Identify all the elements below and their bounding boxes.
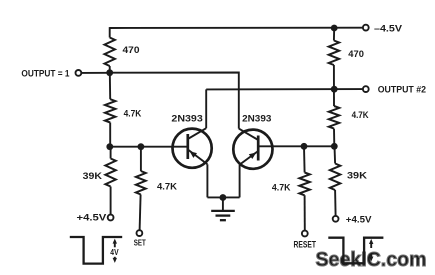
wire: top -4.5V supply rail bbox=[110, 27, 363, 29]
node: top-right rail junction bbox=[331, 25, 338, 32]
waveform: RESET input pulse bbox=[328, 238, 383, 264]
wire: cross-couple from OUTPUT=1 node to Q2 collector bbox=[110, 73, 239, 129]
wire: right base node to 39K bbox=[334, 146, 337, 163]
wire: left column top lead bbox=[109, 27, 111, 37]
wire: Q1 collector to OUTPUT #2 line bbox=[205, 89, 207, 128]
wire: OUTPUT #2 line bbox=[206, 88, 363, 90]
waveform: SET input pulse bbox=[70, 237, 122, 264]
wire: left base node to 39K bbox=[110, 147, 112, 159]
resistor R1 470 (left) bbox=[105, 38, 140, 67]
terminal: OUTPUT #2 bbox=[363, 84, 426, 95]
wire: RESET branch lower lead bbox=[304, 195, 306, 230]
resistor R7 4.7K (SET branch) bbox=[136, 171, 177, 195]
resistor R5 39K (left) bbox=[83, 159, 116, 187]
svg-text:4.7K: 4.7K bbox=[352, 110, 369, 121]
node: OUTPUT=1 junction bbox=[106, 69, 113, 76]
terminal: OUTPUT = 1 bbox=[21, 69, 81, 80]
wire: left column R1 to R3 bbox=[109, 66, 112, 99]
svg-text:4.7K: 4.7K bbox=[157, 182, 177, 193]
ground bbox=[211, 211, 235, 220]
terminal: +4.5V (right) bbox=[333, 214, 372, 225]
wire: Q2 emitter lead bbox=[239, 165, 241, 198]
wire: RESET branch upper lead bbox=[303, 146, 306, 172]
node: RESET branch tap bbox=[301, 143, 308, 150]
wire: ground stem bbox=[222, 198, 224, 211]
resistor R8 4.7K (RESET branch) bbox=[272, 173, 310, 196]
wire: left column R3 to base node bbox=[109, 123, 111, 147]
terminal: +4.5V (left) bbox=[77, 213, 114, 224]
svg-text:39K: 39K bbox=[347, 170, 367, 181]
wire: left base node line bbox=[110, 146, 188, 148]
wire: 39K to +4.5V terminal bbox=[110, 187, 112, 215]
svg-text:SET: SET bbox=[134, 238, 147, 248]
resistor R6 39K (right) bbox=[330, 164, 367, 191]
transistor Q1 2N393 (left, PNP) bbox=[171, 113, 211, 167]
svg-text:470: 470 bbox=[348, 49, 364, 60]
svg-text:39K: 39K bbox=[83, 171, 102, 182]
resistor R3 4.7K (left) bbox=[105, 99, 141, 122]
transistor Q2 2N393 (right, PNP) bbox=[233, 114, 272, 169]
svg-text:4V: 4V bbox=[110, 248, 119, 257]
svg-text:+4.5V: +4.5V bbox=[77, 213, 108, 224]
wire: SET branch upper lead bbox=[140, 147, 142, 171]
svg-text:OUTPUT #2: OUTPUT #2 bbox=[378, 84, 426, 95]
node: SET branch tap bbox=[138, 143, 145, 150]
svg-text:4.7K: 4.7K bbox=[124, 109, 142, 120]
wire: right column R2 to R4 bbox=[333, 65, 335, 106]
terminal: SET bbox=[134, 230, 147, 247]
wire: OUTPUT=1 terminal stub bbox=[81, 72, 109, 74]
svg-text:OUTPUT = 1: OUTPUT = 1 bbox=[21, 69, 70, 80]
wire: SET branch lower lead bbox=[140, 195, 141, 231]
node: emitter/ground junction bbox=[220, 194, 227, 201]
svg-text:–4.5V: –4.5V bbox=[374, 23, 403, 34]
wire: right base node line bbox=[258, 145, 334, 147]
wire: emitter bus bbox=[207, 196, 239, 198]
resistor R4 4.7K (right) bbox=[329, 106, 369, 129]
wire: right column rail to R2 bbox=[333, 28, 335, 41]
svg-text:2N393: 2N393 bbox=[171, 113, 202, 124]
resistor R2 470 (right) bbox=[329, 41, 364, 66]
node: OUTPUT #2 junction bbox=[331, 86, 338, 93]
svg-text:4.7K: 4.7K bbox=[272, 182, 291, 193]
svg-text:470: 470 bbox=[123, 45, 140, 56]
terminal: RESET bbox=[294, 231, 317, 250]
wire: right column R4 to base node bbox=[333, 129, 335, 147]
terminal: -4.5V bbox=[363, 23, 403, 34]
node: right base junction bbox=[331, 143, 338, 150]
svg-text:+4.5V: +4.5V bbox=[346, 214, 372, 225]
svg-text:2N393: 2N393 bbox=[242, 114, 271, 125]
wire: Q1 emitter lead bbox=[206, 164, 208, 197]
wire: 39K to +4.5V terminal (right) bbox=[334, 190, 337, 216]
svg-text:RESET: RESET bbox=[294, 240, 317, 250]
node: left base junction bbox=[106, 143, 113, 150]
